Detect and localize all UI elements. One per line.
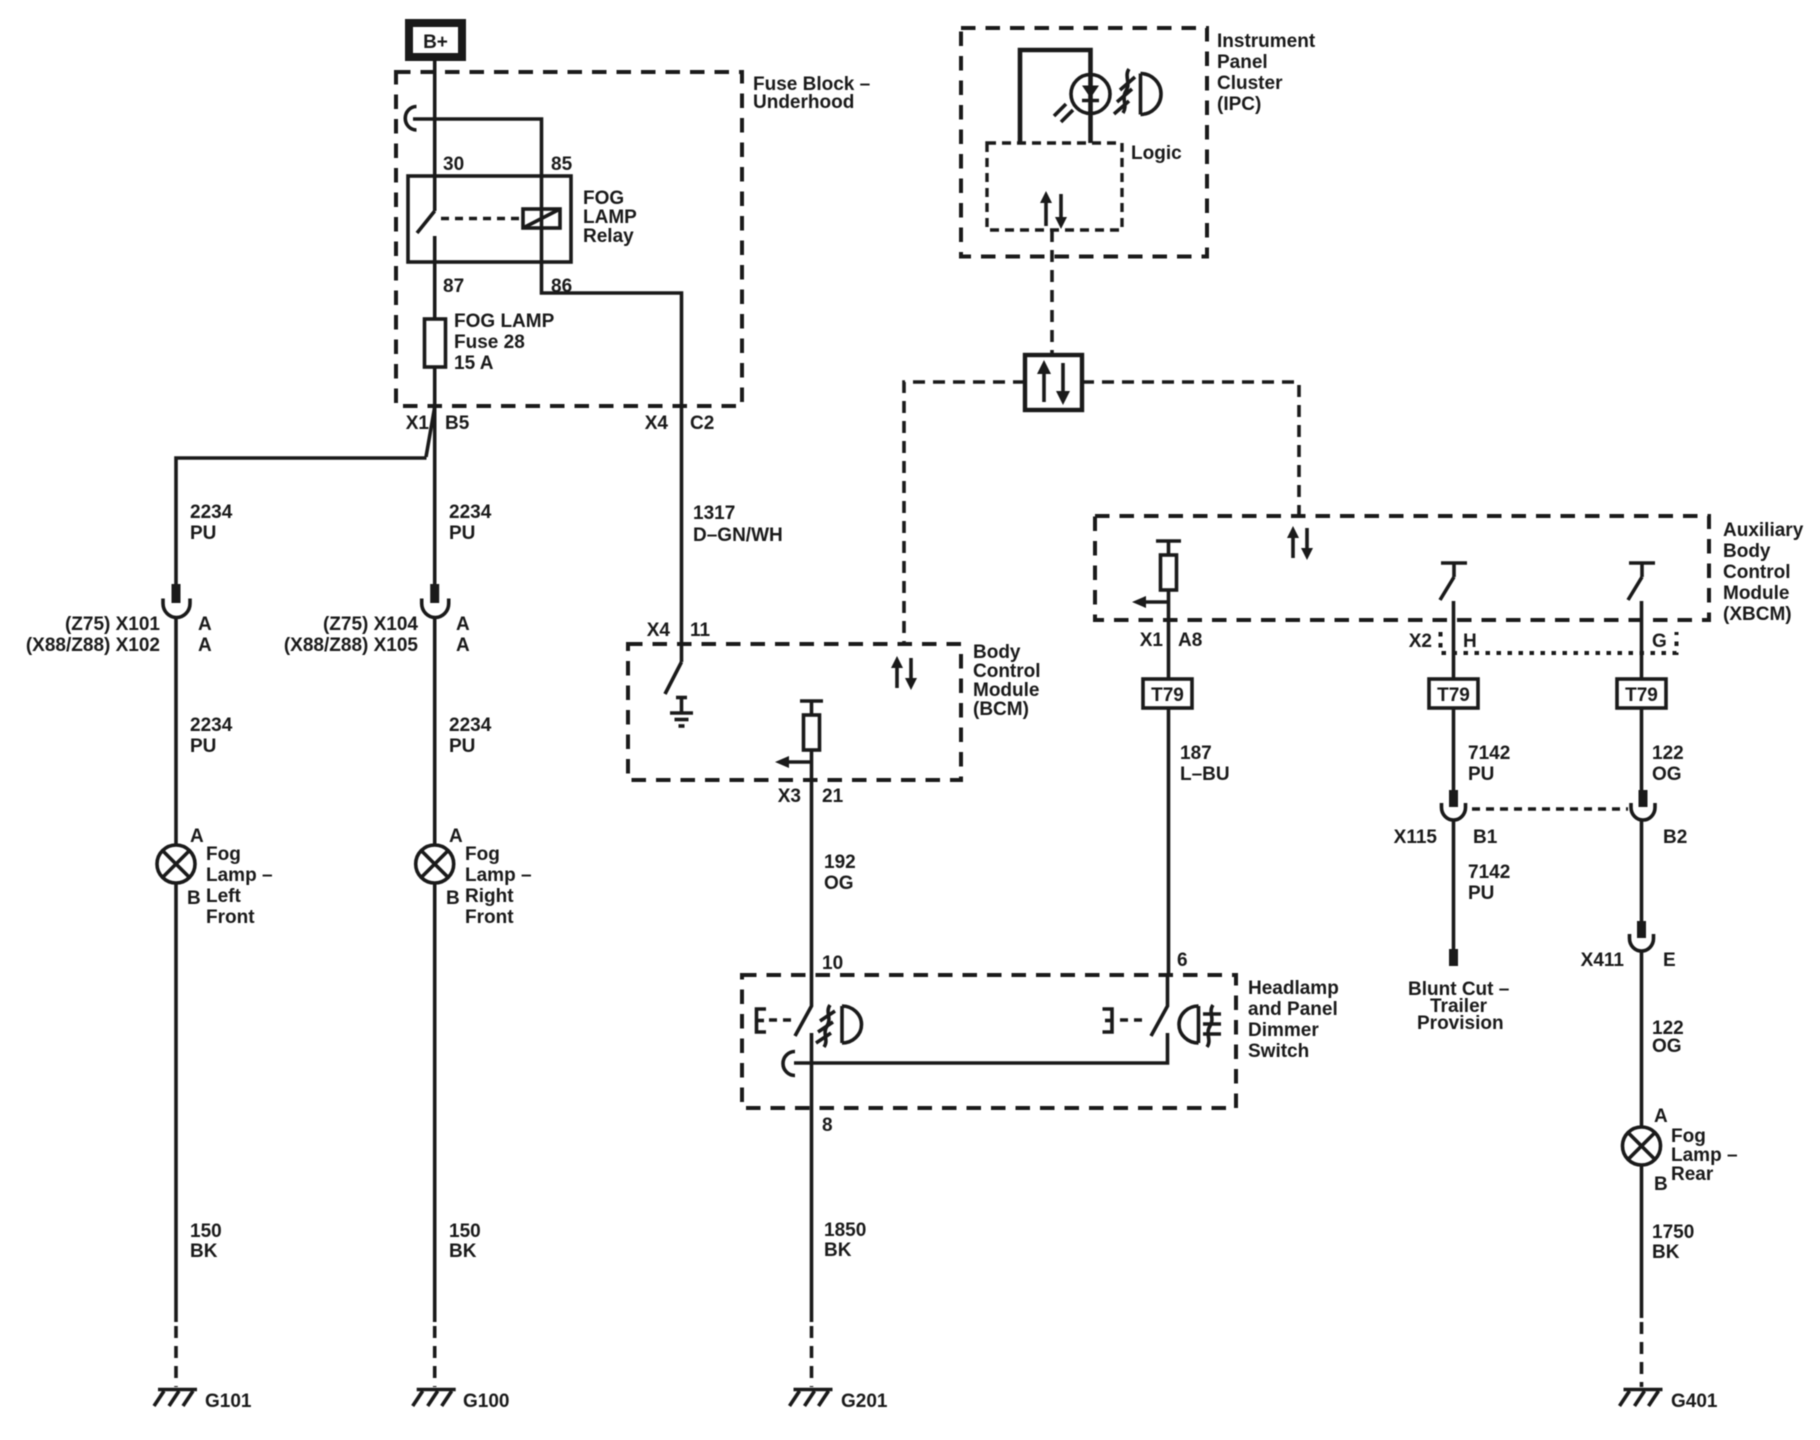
svg-text:B+: B+ xyxy=(423,32,448,53)
svg-text:G101: G101 xyxy=(205,1391,252,1412)
svg-text:7142: 7142 xyxy=(1468,743,1510,764)
relay coil xyxy=(523,176,560,262)
wire circuit 7142 PU upper xyxy=(1452,708,1456,790)
svg-text:(BCM): (BCM) xyxy=(973,699,1029,720)
Logic box xyxy=(987,143,1122,230)
svg-text:Body: Body xyxy=(1723,541,1771,562)
svg-text:6: 6 xyxy=(1177,950,1188,971)
wire link to rear fog contact xyxy=(794,1033,1168,1063)
svg-text:150: 150 xyxy=(190,1221,222,1242)
svg-text:2234: 2234 xyxy=(190,502,233,523)
svg-text:G401: G401 xyxy=(1671,1391,1718,1412)
svg-text:X1: X1 xyxy=(1140,630,1164,651)
connector X115 pin B1 xyxy=(1442,790,1466,820)
svg-text:15 A: 15 A xyxy=(454,353,494,374)
indicator LED fog lamp telltale xyxy=(1054,74,1110,143)
wire fuse output to right fog lamp xyxy=(433,458,437,584)
wire G to T79 xyxy=(1640,620,1644,679)
svg-text:Logic: Logic xyxy=(1131,143,1182,164)
svg-text:Lamp –: Lamp – xyxy=(465,865,532,886)
wire switch common xyxy=(810,1033,814,1108)
wire circuit 1317 D-GN/WH xyxy=(680,406,684,662)
svg-text:Module: Module xyxy=(973,680,1040,701)
svg-text:BK: BK xyxy=(824,1240,852,1261)
svg-text:Underhood: Underhood xyxy=(753,92,854,113)
svg-text:Right: Right xyxy=(465,886,514,907)
dashed pairing X115 xyxy=(1472,807,1628,810)
svg-text:E: E xyxy=(1663,950,1676,971)
wire relay pin 87 to fuse xyxy=(433,262,437,319)
wire X101 to left fog lamp xyxy=(174,617,178,845)
lamp E1 Fog Lamp - Left Front xyxy=(157,845,195,883)
svg-text:X1: X1 xyxy=(406,413,430,434)
svg-text:H: H xyxy=(1463,631,1477,652)
svg-text:X2: X2 xyxy=(1409,631,1432,652)
detent hook left xyxy=(783,1052,795,1076)
svg-text:Lamp –: Lamp – xyxy=(206,865,273,886)
svg-text:X411: X411 xyxy=(1581,950,1625,971)
svg-text:7142: 7142 xyxy=(1468,862,1510,883)
connector X104/X105 xyxy=(422,584,449,618)
svg-text:T79: T79 xyxy=(1625,685,1658,706)
connector X115 pin B2 xyxy=(1631,790,1655,820)
svg-text:X115: X115 xyxy=(1394,827,1438,848)
svg-text:Front: Front xyxy=(206,907,255,928)
svg-text:OG: OG xyxy=(1652,764,1682,785)
svg-text:PU: PU xyxy=(449,523,475,544)
svg-text:FOG: FOG xyxy=(583,188,624,209)
ground G401 xyxy=(1620,1390,1663,1407)
svg-text:(XBCM): (XBCM) xyxy=(1723,604,1792,625)
serial data arrows XBCM xyxy=(1287,526,1313,560)
dashed serial data wire IPC to gateway xyxy=(1050,230,1054,355)
wire A8 to T79 xyxy=(1167,620,1171,679)
svg-text:1750: 1750 xyxy=(1652,1222,1694,1243)
ground internal BCM xyxy=(670,697,693,726)
svg-text:A: A xyxy=(198,635,212,656)
svg-text:187: 187 xyxy=(1180,743,1212,764)
serial data gateway symbol xyxy=(1025,355,1082,410)
lamp E3 Fog Lamp - Rear xyxy=(1623,1127,1661,1165)
switch position bracket right xyxy=(1103,1009,1113,1032)
svg-text:C2: C2 xyxy=(690,413,714,434)
wire relay pin 86 to connector X4 pin C2 xyxy=(542,262,682,406)
svg-text:1317: 1317 xyxy=(693,503,735,524)
blunt cut trailer provision end xyxy=(1449,949,1458,966)
svg-text:(X88/Z88) X102: (X88/Z88) X102 xyxy=(26,635,160,656)
svg-text:A: A xyxy=(190,826,204,847)
svg-text:A8: A8 xyxy=(1178,630,1202,651)
svg-text:PU: PU xyxy=(449,736,475,757)
svg-text:(IPC): (IPC) xyxy=(1217,94,1261,115)
fog lamp switch contact left xyxy=(795,975,812,1036)
mechanical link dashes right xyxy=(1120,1018,1146,1021)
icon rear fog lamp switch xyxy=(1179,1005,1221,1047)
svg-text:150: 150 xyxy=(449,1221,481,1242)
svg-text:B: B xyxy=(446,888,460,909)
svg-text:FOG LAMP: FOG LAMP xyxy=(454,311,555,332)
serial data arrows BCM xyxy=(891,656,917,690)
svg-text:Control: Control xyxy=(1723,562,1791,583)
svg-text:(Z75) X104: (Z75) X104 xyxy=(323,614,418,635)
mechanical link dashes left xyxy=(769,1018,794,1021)
svg-text:85: 85 xyxy=(551,154,573,175)
rear fog switch contact right xyxy=(1151,975,1168,1036)
svg-text:Body: Body xyxy=(973,642,1021,663)
Fuse Block - Underhood box xyxy=(396,72,742,406)
svg-text:A: A xyxy=(456,635,470,656)
icon front fog lamp IPC xyxy=(1114,69,1161,115)
svg-text:A: A xyxy=(198,614,212,635)
svg-text:G100: G100 xyxy=(463,1391,509,1412)
wire branch to relay pin 85 xyxy=(413,119,542,176)
icon front fog lamp switch xyxy=(816,1005,862,1047)
driver feedback arrow xyxy=(775,756,812,768)
svg-text:(Z75) X101: (Z75) X101 xyxy=(65,614,160,635)
svg-text:PU: PU xyxy=(1468,764,1494,785)
wire branch to left fog lamp xyxy=(176,458,427,584)
svg-text:A: A xyxy=(449,826,463,847)
svg-text:Module: Module xyxy=(1723,583,1790,604)
splice branch at B5 xyxy=(426,407,435,457)
svg-text:BK: BK xyxy=(449,1241,477,1262)
switch position bracket E xyxy=(757,1009,767,1032)
wire circuit 1850 BK xyxy=(810,1108,814,1322)
svg-text:X4: X4 xyxy=(645,413,669,434)
serial data arrows logic xyxy=(1040,191,1067,229)
driver feedback arrow XBCM xyxy=(1132,596,1169,608)
relay actuation dashed link xyxy=(441,217,521,220)
svg-text:G201: G201 xyxy=(841,1391,888,1412)
svg-text:Dimmer: Dimmer xyxy=(1248,1020,1319,1041)
svg-text:B1: B1 xyxy=(1473,827,1498,848)
wire B+ to relay pin 30 xyxy=(433,61,437,176)
svg-text:L–BU: L–BU xyxy=(1180,764,1230,785)
svg-text:BK: BK xyxy=(1652,1242,1680,1263)
wire circuit 122 OG to X411 xyxy=(1640,820,1644,921)
dotted connector bracket X2 xyxy=(1441,632,1677,653)
wire circuit 7142 PU lower xyxy=(1452,820,1456,949)
svg-text:192: 192 xyxy=(824,852,856,873)
wire circuit 187 L-BU xyxy=(1167,708,1171,975)
svg-text:A: A xyxy=(1654,1106,1668,1127)
BCM input switch to ground xyxy=(665,662,682,694)
svg-text:87: 87 xyxy=(443,276,464,297)
svg-text:LAMP: LAMP xyxy=(583,207,637,228)
svg-text:Headlamp: Headlamp xyxy=(1248,978,1339,999)
svg-text:2234: 2234 xyxy=(190,715,233,736)
BCM driver output xyxy=(800,701,823,780)
wire circuit 192 OG xyxy=(810,780,814,975)
svg-text:A: A xyxy=(456,614,470,635)
svg-text:Left: Left xyxy=(206,886,242,907)
wire circuit 150 BK left xyxy=(174,883,178,1322)
svg-text:Switch: Switch xyxy=(1248,1041,1309,1062)
dashed wire to G101 xyxy=(174,1326,178,1387)
XBCM driver output A8 xyxy=(1156,541,1181,620)
svg-text:Fog: Fog xyxy=(465,844,500,865)
svg-text:PU: PU xyxy=(1468,883,1494,904)
XBCM switch H xyxy=(1440,563,1467,620)
svg-text:30: 30 xyxy=(443,154,464,175)
svg-text:B: B xyxy=(1654,1174,1668,1195)
dashed wire to G201 xyxy=(810,1326,814,1387)
svg-text:2234: 2234 xyxy=(449,715,492,736)
svg-text:Fuse 28: Fuse 28 xyxy=(454,332,525,353)
terminal T79 left xyxy=(1143,679,1192,708)
svg-text:Fog: Fog xyxy=(1671,1126,1706,1147)
connector X101/X102 xyxy=(163,584,190,618)
svg-text:T79: T79 xyxy=(1151,685,1184,706)
svg-text:B2: B2 xyxy=(1663,827,1687,848)
svg-text:BK: BK xyxy=(190,1241,218,1262)
svg-text:G: G xyxy=(1652,631,1667,652)
svg-text:21: 21 xyxy=(822,786,844,807)
Auxiliary Body Control Module XBCM box xyxy=(1095,516,1709,620)
wire circuit 122 OG lower xyxy=(1640,951,1644,1127)
Body Control Module BCM box xyxy=(628,644,961,780)
wire fuse to connector X1 pin B5 xyxy=(433,367,437,458)
relay K1 FOG LAMP Relay xyxy=(408,176,571,262)
svg-text:PU: PU xyxy=(190,736,216,757)
svg-text:X3: X3 xyxy=(778,786,801,807)
svg-text:T79: T79 xyxy=(1437,685,1470,706)
ground G101 xyxy=(154,1390,197,1407)
svg-text:11: 11 xyxy=(690,620,711,641)
svg-text:X4: X4 xyxy=(647,620,671,641)
svg-text:10: 10 xyxy=(822,953,843,974)
terminal T79 right xyxy=(1617,679,1666,708)
terminal T79 middle xyxy=(1429,679,1478,708)
svg-text:Lamp –: Lamp – xyxy=(1671,1145,1738,1166)
svg-text:2234: 2234 xyxy=(449,502,492,523)
Headlamp and Panel Dimmer Switch box xyxy=(742,975,1236,1108)
dashed wire to G401 xyxy=(1640,1322,1644,1387)
wire circuit 150 BK right xyxy=(433,883,437,1322)
battery feed B+ xyxy=(405,19,466,61)
svg-text:Instrument: Instrument xyxy=(1217,31,1316,52)
wire circuit 1750 BK xyxy=(1640,1165,1644,1318)
Instrument Panel Cluster IPC box xyxy=(961,28,1207,257)
relay switch contact xyxy=(417,176,435,262)
svg-text:Fog: Fog xyxy=(206,844,241,865)
XBCM switch G xyxy=(1628,563,1655,620)
svg-text:122: 122 xyxy=(1652,743,1684,764)
svg-text:Provision: Provision xyxy=(1417,1013,1504,1034)
svg-text:Control: Control xyxy=(973,661,1041,682)
svg-text:Relay: Relay xyxy=(583,226,634,247)
svg-text:8: 8 xyxy=(822,1115,833,1136)
svg-text:B: B xyxy=(187,888,201,909)
svg-text:D–GN/WH: D–GN/WH xyxy=(693,525,783,546)
connector X411 pin E xyxy=(1630,921,1654,951)
svg-text:B5: B5 xyxy=(445,413,470,434)
splice hook at B+ feed xyxy=(405,107,416,131)
svg-text:Panel: Panel xyxy=(1217,52,1268,73)
wire H to T79 xyxy=(1452,620,1456,679)
svg-text:Auxiliary: Auxiliary xyxy=(1723,520,1804,541)
svg-text:and Panel: and Panel xyxy=(1248,999,1338,1020)
dashed wire to G100 xyxy=(433,1326,437,1387)
wire IPC indicator loop xyxy=(1020,50,1091,143)
wire X104 to right fog lamp xyxy=(433,617,437,845)
wire circuit 122 OG upper xyxy=(1640,708,1644,790)
svg-text:Front: Front xyxy=(465,907,514,928)
fuse F28 FOG LAMP 15A xyxy=(425,319,446,367)
lamp E2 Fog Lamp - Right Front xyxy=(416,845,454,883)
ground G201 xyxy=(790,1390,833,1407)
dashed serial data wire to XBCM xyxy=(1082,382,1299,516)
ground G100 xyxy=(413,1390,456,1407)
dashed serial data wire to BCM xyxy=(904,382,1025,644)
svg-text:OG: OG xyxy=(1652,1036,1682,1057)
svg-text:1850: 1850 xyxy=(824,1220,866,1241)
svg-text:Cluster: Cluster xyxy=(1217,73,1283,94)
svg-text:PU: PU xyxy=(190,523,216,544)
svg-text:Rear: Rear xyxy=(1671,1164,1714,1185)
svg-text:(X88/Z88) X105: (X88/Z88) X105 xyxy=(284,635,419,656)
svg-text:OG: OG xyxy=(824,873,854,894)
